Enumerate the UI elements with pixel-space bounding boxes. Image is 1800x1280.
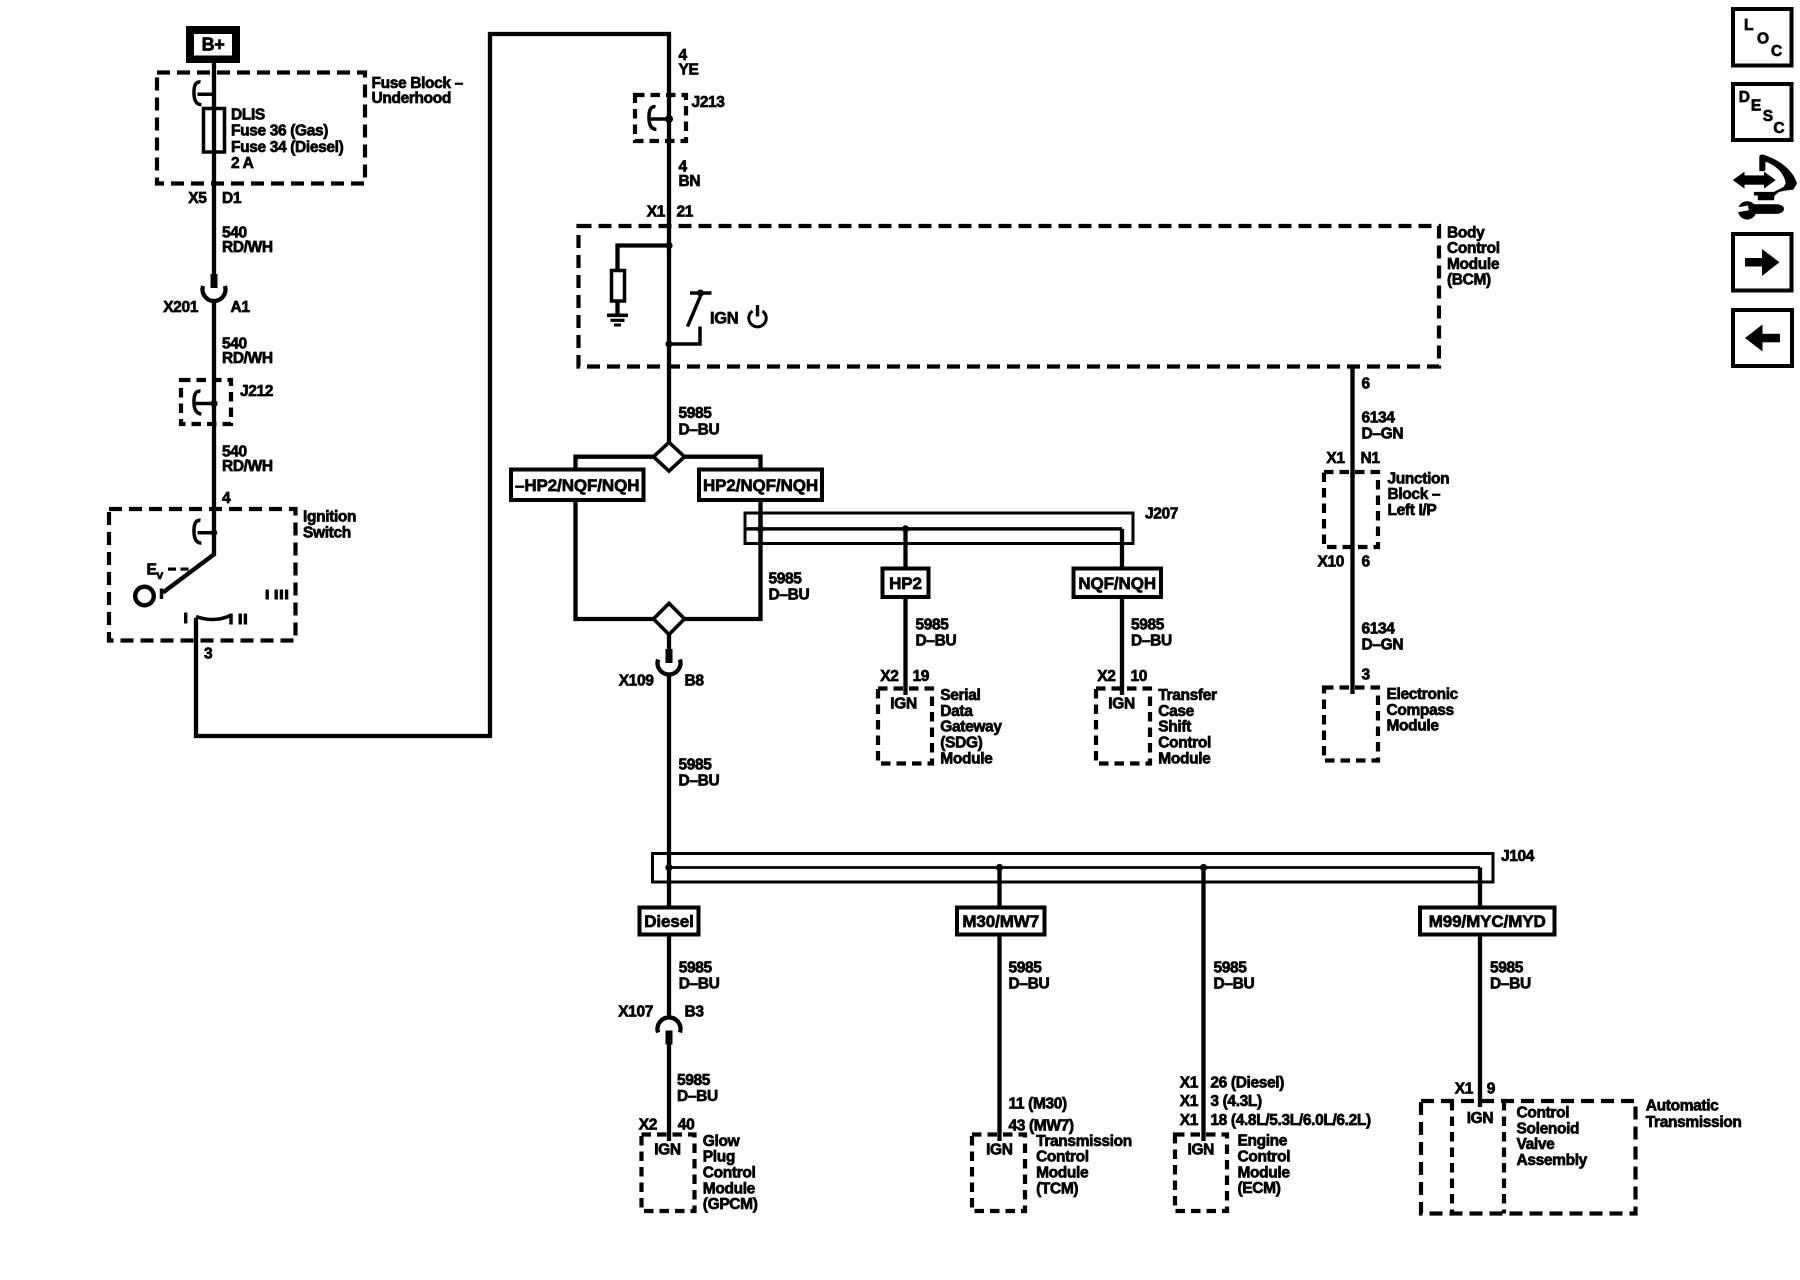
svg-text:Module: Module bbox=[940, 750, 993, 767]
wire J207 tap to HP2 box bbox=[903, 529, 907, 569]
svg-text:DLIS: DLIS bbox=[231, 107, 265, 124]
svg-text:Module: Module bbox=[703, 1180, 756, 1197]
svg-text:E: E bbox=[147, 562, 157, 579]
wire label 540 RD/WH bbox=[222, 225, 273, 257]
wire to pull-down resistor bbox=[618, 246, 670, 272]
wire label 5985 D-BU bbox=[1009, 959, 1050, 992]
option box -HP2/NQF/NQH bbox=[511, 470, 644, 501]
wire label 5985 D-BU (right chain) bbox=[769, 571, 810, 604]
svg-text:RD/WH: RD/WH bbox=[222, 350, 273, 367]
wire M99 box to solenoid valve assembly bbox=[1478, 935, 1482, 1108]
wire label 6134 D-GN bbox=[1362, 620, 1404, 653]
inline harness connector J104 bbox=[653, 848, 1535, 882]
transmission control module label bbox=[1036, 1133, 1132, 1197]
svg-text:26 (Diesel): 26 (Diesel) bbox=[1210, 1074, 1284, 1091]
svg-text:X2: X2 bbox=[880, 668, 898, 685]
fuse clip terminal bbox=[194, 82, 214, 105]
svg-text:6134: 6134 bbox=[1362, 410, 1396, 427]
control solenoid valve assembly label bbox=[1517, 1105, 1588, 1169]
option box HP2 bbox=[883, 569, 929, 598]
ignition switch (dashed box) bbox=[109, 509, 296, 641]
svg-text:D: D bbox=[1739, 89, 1750, 106]
svg-text:HP2: HP2 bbox=[889, 574, 922, 593]
svg-text:(ECM): (ECM) bbox=[1238, 1180, 1281, 1197]
svg-text:Control: Control bbox=[1036, 1149, 1089, 1166]
svg-text:6134: 6134 bbox=[1362, 620, 1396, 637]
svg-text:X1: X1 bbox=[1180, 1074, 1199, 1091]
svg-text:5985: 5985 bbox=[769, 571, 803, 588]
wire ignition pin3 return to top bbox=[196, 34, 669, 736]
LOC button bbox=[1733, 9, 1792, 66]
svg-text:Control: Control bbox=[1447, 240, 1500, 257]
svg-text:X1: X1 bbox=[647, 204, 666, 221]
SECTION: BCM bbox=[579, 47, 1500, 443]
wire label 5985 D-BU (NQF branch) bbox=[1131, 616, 1172, 649]
svg-text:3 (4.3L): 3 (4.3L) bbox=[1210, 1093, 1262, 1110]
svg-text:J213: J213 bbox=[692, 94, 726, 111]
forward arrow button bbox=[1733, 234, 1792, 291]
wire label 5985 D-BU bbox=[679, 757, 720, 790]
wire diamond to left option box bbox=[576, 457, 654, 470]
svg-text:Compass: Compass bbox=[1387, 702, 1454, 719]
wire junction block to compass bbox=[1350, 547, 1354, 694]
node J104 M30 tap bbox=[996, 864, 1003, 871]
svg-text:S: S bbox=[1763, 108, 1773, 125]
pin label X5 D1 bbox=[188, 190, 242, 207]
svg-text:X1: X1 bbox=[1455, 1081, 1474, 1098]
inline connector X107 B3 bbox=[618, 1004, 704, 1045]
pin label X1 26 (Diesel) bbox=[1180, 1074, 1285, 1091]
svg-text:Body: Body bbox=[1447, 224, 1485, 241]
wire through junction block bbox=[1350, 472, 1354, 547]
svg-text:M99/MYC/MYD: M99/MYC/MYD bbox=[1429, 912, 1546, 931]
splice J213 (dashed box) bbox=[635, 94, 725, 141]
svg-text:M30/MW7: M30/MW7 bbox=[962, 912, 1039, 931]
svg-text:5985: 5985 bbox=[679, 959, 713, 976]
svg-text:(BCM): (BCM) bbox=[1447, 272, 1491, 289]
pin label X1 18 (4.8L/5.3L/6.0L/6.2L) bbox=[1180, 1112, 1371, 1129]
svg-text:Left I/P: Left I/P bbox=[1388, 502, 1437, 519]
J213 terminal hook bbox=[649, 107, 673, 130]
wire left option chain down bbox=[576, 500, 654, 619]
svg-text:(GPCM): (GPCM) bbox=[703, 1196, 758, 1213]
svg-text:X5: X5 bbox=[188, 190, 207, 207]
svg-text:E: E bbox=[1751, 98, 1761, 115]
position label E bbox=[147, 562, 189, 583]
svg-text:19: 19 bbox=[913, 668, 930, 685]
inline connector X109 B8 bbox=[619, 649, 705, 690]
inline connector X201 A1 bbox=[163, 274, 250, 316]
node J207 left bbox=[757, 525, 764, 532]
option split diamond (lower) bbox=[654, 603, 685, 634]
svg-text:5985: 5985 bbox=[679, 757, 713, 774]
svg-text:X1: X1 bbox=[1326, 450, 1345, 467]
wire J104 right end to M99 box bbox=[1478, 868, 1482, 908]
svg-text:X2: X2 bbox=[1097, 668, 1115, 685]
harness routing icon (double arrow with wrench) bbox=[1733, 155, 1797, 220]
svg-text:Fuse 34 (Diesel): Fuse 34 (Diesel) bbox=[231, 139, 344, 156]
svg-text:Automatic: Automatic bbox=[1646, 1097, 1719, 1114]
svg-text:5985: 5985 bbox=[677, 1072, 711, 1089]
ECM connector (dashed box) bbox=[1175, 1135, 1227, 1212]
wire main through J104 to Diesel box bbox=[667, 854, 671, 908]
ignition switch input terminal hook bbox=[194, 520, 217, 543]
svg-text:D–GN: D–GN bbox=[1362, 426, 1404, 443]
DESC button bbox=[1733, 84, 1792, 140]
svg-text:Assembly: Assembly bbox=[1517, 1152, 1588, 1169]
option box NQF/NQH bbox=[1074, 569, 1162, 598]
svg-text:X109: X109 bbox=[619, 673, 655, 690]
svg-text:L: L bbox=[1744, 17, 1753, 34]
wire B+ to fuse bbox=[212, 63, 216, 274]
wire label 5985 D-BU below BCM bbox=[679, 405, 720, 438]
J212 terminal hook bbox=[194, 391, 218, 414]
svg-text:IGN: IGN bbox=[890, 695, 917, 712]
ignition switch blade bbox=[162, 555, 214, 600]
node J104 main bbox=[665, 864, 672, 871]
wire BCM to junction block bbox=[1350, 367, 1354, 479]
SECTION: right compass chain bbox=[1317, 367, 1458, 761]
svg-text:X1: X1 bbox=[1180, 1112, 1199, 1129]
resistor R (BCM internal) bbox=[612, 271, 625, 302]
svg-text:Control: Control bbox=[1517, 1105, 1570, 1122]
svg-text:Switch: Switch bbox=[303, 525, 351, 542]
wire label 5985 D-BU bbox=[1214, 959, 1255, 992]
svg-text:B8: B8 bbox=[685, 673, 705, 690]
svg-text:BN: BN bbox=[679, 173, 701, 190]
svg-text:Module: Module bbox=[1447, 256, 1500, 273]
svg-text:X201: X201 bbox=[163, 299, 199, 316]
svg-text:3: 3 bbox=[204, 646, 213, 663]
svg-text:D–BU: D–BU bbox=[916, 633, 957, 650]
power icon bbox=[749, 305, 766, 327]
svg-text:5985: 5985 bbox=[1490, 959, 1524, 976]
wire label 5985 D-BU bbox=[1490, 959, 1531, 992]
wire J213 to BCM bbox=[667, 98, 671, 443]
position marks I II with detent arc bbox=[184, 613, 247, 625]
wire HP2 to SDG module bbox=[903, 597, 907, 695]
svg-text:A1: A1 bbox=[231, 299, 251, 316]
engine control module label bbox=[1238, 1133, 1291, 1197]
control solenoid valve assembly (dashed box) bbox=[1421, 1101, 1636, 1214]
pin label X10 6 bbox=[1317, 553, 1370, 570]
svg-text:21: 21 bbox=[677, 204, 694, 221]
pin label X2 40 bbox=[639, 1116, 695, 1133]
svg-text:18 (4.8L/5.3L/6.0L/6.2L): 18 (4.8L/5.3L/6.0L/6.2L) bbox=[1210, 1112, 1371, 1129]
inline harness connector J207 bbox=[745, 506, 1178, 544]
wire diamond to right option box bbox=[685, 457, 761, 470]
svg-text:NQF/NQH: NQF/NQH bbox=[1078, 574, 1156, 593]
back arrow button bbox=[1733, 310, 1792, 366]
svg-text:6: 6 bbox=[1362, 553, 1371, 570]
svg-text:Gateway: Gateway bbox=[940, 719, 1002, 736]
svg-text:5985: 5985 bbox=[916, 616, 950, 633]
svg-text:Ignition: Ignition bbox=[303, 509, 356, 526]
wire diamond to X109 bbox=[667, 635, 671, 651]
svg-text:Data: Data bbox=[940, 703, 973, 720]
svg-text:Module: Module bbox=[1036, 1165, 1089, 1182]
svg-text:RD/WH: RD/WH bbox=[222, 239, 273, 256]
svg-text:J212: J212 bbox=[240, 383, 273, 400]
wire label 6134 D-GN bbox=[1362, 410, 1404, 443]
pin label X1 3 (4.3L) bbox=[1180, 1093, 1262, 1110]
svg-text:11 (M30): 11 (M30) bbox=[1009, 1095, 1068, 1112]
fuse block underhood (dashed box) bbox=[157, 73, 365, 184]
wire Diesel box to X107 bbox=[667, 935, 671, 1018]
svg-text:X1: X1 bbox=[1180, 1093, 1199, 1110]
wire J104 tap to ECM bbox=[1201, 868, 1205, 1142]
svg-text:O: O bbox=[1757, 31, 1769, 48]
electronic compass module label bbox=[1387, 686, 1459, 735]
svg-text:D–BU: D–BU bbox=[1131, 633, 1172, 650]
svg-text:Module: Module bbox=[1158, 750, 1211, 767]
svg-text:Junction: Junction bbox=[1388, 470, 1450, 487]
SECTION: ignition switch bbox=[109, 34, 669, 736]
svg-text:X107: X107 bbox=[618, 1004, 653, 1021]
svg-text:5985: 5985 bbox=[1009, 959, 1043, 976]
svg-text:6: 6 bbox=[1362, 375, 1371, 392]
wire right chain overlay through J207 bbox=[758, 513, 762, 544]
svg-text:IGN: IGN bbox=[986, 1141, 1013, 1158]
svg-text:Control: Control bbox=[703, 1165, 756, 1182]
switch IGN (BCM internal) bbox=[665, 290, 711, 348]
wire J104 tap to M30/MW7 box bbox=[997, 868, 1001, 908]
fuse DLIS 2A bbox=[204, 109, 225, 153]
wire X109 down to J104 bbox=[667, 675, 671, 854]
ignition switch label bbox=[303, 509, 356, 542]
wire right option chain down through J207 bbox=[685, 500, 761, 619]
svg-text:C: C bbox=[1773, 120, 1784, 137]
ignition switch rotor circle bbox=[135, 587, 154, 606]
svg-text:HP2/NQF/NQH: HP2/NQF/NQH bbox=[703, 476, 818, 495]
junction block label bbox=[1388, 470, 1450, 519]
svg-text:D–BU: D–BU bbox=[677, 1088, 718, 1105]
svg-text:Module: Module bbox=[1387, 718, 1440, 735]
svg-text:Block –: Block – bbox=[1388, 486, 1441, 503]
svg-text:IGN: IGN bbox=[1108, 695, 1135, 712]
node J207 HP2 tap bbox=[902, 525, 909, 532]
GPCM connector (dashed box) bbox=[642, 1135, 695, 1212]
electronic compass module connector (dashed box) bbox=[1324, 688, 1378, 761]
svg-text:4: 4 bbox=[222, 490, 231, 507]
wire J207 right end to NQF/NQH box bbox=[1120, 529, 1124, 569]
junction block left I/P (dashed box) bbox=[1324, 472, 1378, 547]
svg-text:5985: 5985 bbox=[1131, 616, 1165, 633]
TCM connector (dashed box) bbox=[972, 1135, 1025, 1212]
pin label X1 21 bbox=[647, 204, 694, 221]
svg-text:9: 9 bbox=[1487, 1081, 1496, 1098]
svg-text:Control: Control bbox=[1158, 735, 1211, 752]
svg-text:D–BU: D–BU bbox=[769, 587, 810, 604]
svg-text:IGN: IGN bbox=[1188, 1141, 1215, 1158]
wire label 5985 D-BU (HP2 branch) bbox=[916, 616, 957, 649]
svg-text:(TCM): (TCM) bbox=[1036, 1180, 1078, 1197]
transfer case shift control module label bbox=[1158, 687, 1217, 767]
svg-text:Control: Control bbox=[1238, 1149, 1291, 1166]
wire label 5985 D-BU bbox=[679, 959, 720, 992]
pin label X1 9 bbox=[1455, 1081, 1496, 1098]
node J104 ECM tap bbox=[1200, 864, 1207, 871]
wire resistor to ground bbox=[615, 301, 619, 314]
node: resistor branch junction bbox=[665, 242, 672, 249]
wire NQF/NQH to transfer case module bbox=[1120, 597, 1124, 695]
splice J212 (dashed box) bbox=[181, 380, 273, 424]
svg-text:D–BU: D–BU bbox=[679, 773, 720, 790]
svg-text:Transmission: Transmission bbox=[1036, 1133, 1132, 1150]
svg-text:IGN: IGN bbox=[710, 310, 738, 328]
svg-text:Glow: Glow bbox=[703, 1133, 741, 1150]
ground (BCM internal) bbox=[607, 314, 628, 327]
svg-text:Case: Case bbox=[1158, 703, 1194, 720]
svg-text:D–BU: D–BU bbox=[679, 421, 720, 438]
svg-text:D1: D1 bbox=[222, 190, 242, 207]
svg-text:Engine: Engine bbox=[1238, 1133, 1288, 1150]
BCM label bbox=[1447, 224, 1500, 288]
svg-text:5985: 5985 bbox=[679, 405, 713, 422]
option box M30/MW7 bbox=[957, 908, 1045, 935]
svg-text:Fuse 36 (Gas): Fuse 36 (Gas) bbox=[231, 123, 328, 140]
svg-text:YE: YE bbox=[679, 62, 699, 79]
pin label X2 10 bbox=[1097, 668, 1147, 685]
SECTION: J104 bottom bbox=[618, 848, 1741, 1214]
svg-text:Diesel: Diesel bbox=[644, 912, 694, 931]
svg-text:RD/WH: RD/WH bbox=[222, 458, 273, 475]
svg-text:(SDG): (SDG) bbox=[940, 735, 982, 752]
svg-text:Solenoid: Solenoid bbox=[1517, 1120, 1580, 1137]
svg-text:C: C bbox=[1771, 43, 1782, 60]
svg-text:B+: B+ bbox=[202, 35, 225, 55]
wire X107 to GPCM bbox=[667, 1045, 671, 1142]
svg-text:Electronic: Electronic bbox=[1387, 686, 1459, 703]
svg-text:D–BU: D–BU bbox=[1490, 976, 1531, 993]
body control module BCM (dashed box) bbox=[579, 226, 1440, 367]
svg-text:X2: X2 bbox=[639, 1116, 657, 1133]
transfer case module connector (dashed box) bbox=[1096, 689, 1150, 764]
wire label 5985 D-BU bbox=[677, 1072, 718, 1105]
svg-text:Plug: Plug bbox=[703, 1149, 735, 1166]
wire M30/MW7 to TCM bbox=[997, 935, 1001, 1142]
svg-text:2 A: 2 A bbox=[231, 155, 254, 172]
svg-text:Module: Module bbox=[1238, 1164, 1291, 1181]
SDG module connector (dashed box) bbox=[878, 689, 932, 764]
wire label 4 YE bbox=[679, 47, 699, 79]
svg-text:3: 3 bbox=[1362, 667, 1371, 684]
svg-text:D–GN: D–GN bbox=[1362, 637, 1404, 654]
fuse value label bbox=[231, 107, 344, 173]
SECTION: sidebar icons bbox=[1733, 9, 1797, 366]
svg-text:Valve: Valve bbox=[1517, 1136, 1556, 1153]
option box Diesel bbox=[640, 908, 699, 935]
wire X201 to J212 bbox=[212, 300, 216, 556]
wire label 540 RD/WH bbox=[222, 444, 273, 476]
svg-text:D–BU: D–BU bbox=[679, 976, 720, 993]
svg-text:J207: J207 bbox=[1145, 506, 1178, 523]
glow plug control module label bbox=[703, 1133, 758, 1213]
wire label 540 RD/WH bbox=[222, 336, 273, 368]
solenoid IGN connector dividers bbox=[1452, 1101, 1504, 1214]
svg-text:Underhood: Underhood bbox=[372, 90, 452, 107]
svg-text:D–BU: D–BU bbox=[1009, 976, 1050, 993]
option box M99/MYC/MYD bbox=[1420, 908, 1555, 935]
serial data gateway label bbox=[940, 687, 1002, 767]
svg-text:D–BU: D–BU bbox=[1214, 976, 1255, 993]
svg-text:IGN: IGN bbox=[1467, 1110, 1494, 1127]
svg-text:J104: J104 bbox=[1501, 848, 1535, 865]
position marks I III bbox=[266, 590, 289, 600]
svg-text:Shift: Shift bbox=[1158, 719, 1191, 736]
pin label X1 N1 bbox=[1326, 450, 1380, 467]
option split diamond (top) bbox=[654, 442, 685, 471]
svg-text:–HP2/NQF/NQH: –HP2/NQF/NQH bbox=[515, 476, 639, 495]
svg-text:5985: 5985 bbox=[1214, 959, 1248, 976]
svg-text:N1: N1 bbox=[1361, 450, 1381, 467]
pin label X2 19 bbox=[880, 668, 930, 685]
automatic transmission label bbox=[1646, 1097, 1742, 1131]
fuse block label bbox=[372, 75, 464, 107]
wire label 4 BN bbox=[679, 159, 701, 191]
svg-text:X10: X10 bbox=[1317, 553, 1344, 570]
svg-text:IGN: IGN bbox=[654, 1141, 681, 1158]
svg-text:Serial: Serial bbox=[940, 687, 980, 704]
SECTION: middle splice / HP2 boxes / J207 bbox=[511, 442, 1217, 854]
svg-text:Transfer: Transfer bbox=[1158, 687, 1217, 704]
option box HP2/NQF/NQH bbox=[699, 470, 822, 501]
svg-text:B3: B3 bbox=[685, 1004, 705, 1021]
svg-text:Transmission: Transmission bbox=[1646, 1114, 1742, 1131]
svg-text:v: v bbox=[157, 568, 164, 582]
svg-text:10: 10 bbox=[1131, 668, 1148, 685]
battery terminal B+ bbox=[186, 26, 240, 63]
SECTION: left battery feed chain bbox=[157, 26, 464, 556]
svg-text:40: 40 bbox=[678, 1116, 695, 1133]
